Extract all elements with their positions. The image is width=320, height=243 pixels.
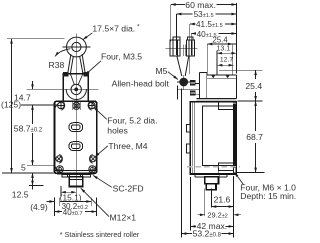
body bottom step [195,171,234,177]
cover screw bottom-right (M4) [89,154,96,163]
dim row 60 max [171,0,237,10]
ext vertical right common [233,176,235,238]
allen bolt bottom-left [56,166,63,173]
dim row 40±1.5 [191,30,236,39]
label M5 [156,66,168,76]
svg-text:25.4: 25.4 [245,81,262,91]
label R38 [49,60,65,70]
dim 58.7 line [32,105,34,165]
conduit flange [62,174,90,177]
cover thick back edge [233,104,236,168]
svg-text:Three, M4: Three, M4 [108,141,147,151]
dim 25.4 vertical [255,70,257,101]
roller side rect A [170,37,180,56]
svg-text:Four, 5.2 dia.: Four, 5.2 dia. [107,116,157,126]
centerline front view [75,34,77,197]
head side outline [200,72,237,98]
M12 connector side [205,177,219,190]
leader M5 [168,72,178,80]
leader arc R38 [55,49,70,57]
label 40±0.7 [63,208,83,217]
label 17.5×7 dia. [92,23,140,33]
lever fork arms [68,54,86,73]
ext vertical 42max left [190,177,192,231]
gray mounting centerline [187,166,240,168]
svg-text:* Stainless sintered roller: * Stainless sintered roller [60,230,140,239]
leader Three M4 [95,146,108,157]
label 68.7 [246,132,263,142]
svg-text:21.6: 21.6 [214,195,231,205]
label Four, 5.2 dia. holes [107,116,157,136]
lever clamp block lower [190,90,199,95]
oval knockout lower [69,142,83,151]
leader Four M6 [235,172,244,184]
cover screw top-middle [73,102,81,110]
label 14.7 [14,92,31,102]
plunger mark left [211,75,215,78]
dim row 12.7 [218,56,234,65]
label 21.6 [214,195,231,205]
label Allen-head bolt [112,79,170,89]
ext line body bottom right [237,172,265,174]
dim 5 lower arrow / body bottom ext [2,173,54,179]
svg-text:(4.9): (4.9) [30,202,48,212]
dim row 41.5±1.5 [190,20,237,29]
ext vertical 25.4 left [206,44,208,72]
dim 68.7 vertical [255,101,257,173]
ext vertical body back (rows right) [235,3,237,74]
svg-text:Depth: 15 min.: Depth: 15 min. [240,191,296,201]
dim (125) extension top [7,38,65,40]
svg-text:M12×1: M12×1 [110,212,137,222]
svg-text:12.5: 12.5 [12,190,29,200]
lever side arm [177,56,189,76]
label 12.5 [12,190,29,200]
cover latch bump lower [186,144,190,153]
corner fillet top-right [87,102,96,111]
leader M12 [81,188,109,216]
svg-text:Four, M3.5: Four, M3.5 [101,52,142,62]
mounting screw top-right [88,101,95,111]
label M12×1 [110,212,137,222]
fork to shaft lines [70,74,83,85]
label SC-2FD [113,184,144,194]
label 58.7±0.2 [13,124,44,134]
svg-text:holes: holes [107,125,128,135]
label Four M6 [240,183,296,201]
svg-text:M5: M5 [156,66,168,76]
dim 53.2±0.8 [182,229,234,239]
shaft boss arc [66,89,86,99]
dim 12.5 [29,179,44,190]
roller [63,37,91,57]
head block front [63,74,88,102]
plunger mark right [226,75,230,78]
dim 40 row [54,211,96,213]
ext line holes bottom [27,164,56,166]
allen-head bolt M5 side [177,75,200,100]
footnote stainless roller [60,230,140,239]
clamp screw right (M3.5) [84,72,89,77]
body front [54,101,96,173]
allen bolt bottom-right [89,166,96,173]
dim row 25.4 horizontal [207,35,236,44]
ext vertical 29.2 left [204,189,206,216]
svg-text:60 max.: 60 max. [185,0,216,10]
M12 connector front [69,177,82,187]
label 29.2±2 [207,211,227,220]
lever clamp block upper [190,80,199,85]
lever blade between rollers [183,45,186,56]
ext line holes top [21,104,58,106]
ext vertical lever (41.5 left) [189,24,191,74]
dim (125) line [11,39,13,173]
dim row 53±1.5 [177,10,237,19]
ext vertical roller front (60 max left) [170,5,172,42]
ext vertical 21.6 left [210,189,212,208]
svg-text:12.7: 12.7 [220,56,233,63]
ext line 25.4 top [219,69,263,71]
svg-text:SC-2FD: SC-2FD [113,184,144,194]
ext vertical 12.7 left [0,0,1,1]
oval knockout upper [69,123,83,132]
mounting screw top-left [58,101,65,111]
ext vertical plunger right [232,44,234,75]
dim 42 max [191,221,234,231]
clamp screw left (M3.5) [63,72,68,77]
svg-text:68.7: 68.7 [246,132,263,142]
svg-text:13.1: 13.1 [217,45,231,52]
ext vertical roller center (53 left) [176,14,178,55]
label 30.2±0.2 [61,202,88,211]
label Four, M3.5 [101,52,142,62]
dim 30.2 row [47,198,97,216]
body bottom line [54,169,96,171]
ext vertical 53.2 left (bolt front) [181,89,183,238]
corner fillet bottom-left [55,164,64,173]
roller side rect B [186,37,194,56]
shaft crosshair / 14.7 extension line [26,88,98,90]
leader SC-2FD [93,175,112,187]
dim 21.6 [211,206,233,208]
top hump [219,102,234,110]
svg-text:5: 5 [21,162,26,172]
body side outline [190,102,236,174]
label (15.1) [60,193,82,203]
ext vertical head front (40 left) [190,34,192,56]
gasket gray band [197,99,237,102]
label (4.9) [30,202,48,212]
svg-text:R38: R38 [49,60,65,70]
svg-text:25.4: 25.4 [213,35,229,44]
corner fillet bottom-right [88,164,97,173]
corner fillet top-left [55,102,65,112]
dim row 13.1 [217,45,237,53]
inner cover rect [202,106,235,165]
label (125) [1,100,21,110]
svg-text:17.5×7 dia. *: 17.5×7 dia. * [92,23,140,33]
dim (15.1) [61,186,76,197]
svg-text:14.7: 14.7 [14,92,31,102]
label 5 [21,162,26,172]
M6 boss [218,163,233,170]
ext vertical 13.1 left [216,51,218,75]
dim 14.7 upper arrow [32,81,34,89]
dim 29.2 arrows [197,214,241,216]
label 25.4 right [245,81,262,91]
leader 5.2 holes [94,107,107,119]
cover screw bottom-left (M4) [56,154,63,163]
label Three, M4 [108,141,147,151]
shaft circle [71,84,81,94]
roller axis line [165,47,197,49]
leader Four M3.5 [85,61,101,75]
leader 17.5 [83,33,93,40]
cover latch bump upper [186,125,190,132]
cover seam lines [192,102,195,174]
ext line body top right [238,100,263,102]
svg-text:Allen-head bolt: Allen-head bolt [112,79,170,89]
